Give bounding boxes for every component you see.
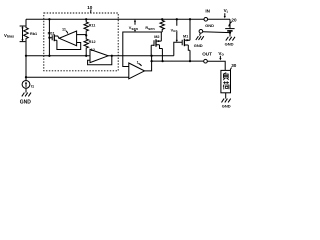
ground below load <box>222 99 231 109</box>
svg-text:M1: M1 <box>183 35 188 39</box>
transistor M11 <box>48 32 81 50</box>
wire load to ground <box>225 93 227 99</box>
op-amp 1 <box>129 60 145 79</box>
svg-text:R11: R11 <box>89 24 96 28</box>
transistor M1 <box>174 19 190 61</box>
svg-text:Vbias: Vbias <box>4 33 14 39</box>
svg-text:IN: IN <box>205 8 210 13</box>
svg-text:Vsen: Vsen <box>129 26 139 31</box>
wire op-amp 1 output to gate line <box>145 56 152 71</box>
resistor Rb1 <box>24 19 37 56</box>
dashed block 10 boundary <box>44 13 118 71</box>
ground below battery <box>225 37 235 47</box>
voltage arrow Vi <box>224 8 228 18</box>
voltage arrow Vbias <box>4 26 25 42</box>
svg-text:I1: I1 <box>31 84 34 88</box>
terminal IN <box>204 8 211 21</box>
load box 30 <box>221 63 237 93</box>
svg-text:1: 1 <box>137 60 139 64</box>
svg-text:Rsen: Rsen <box>145 26 155 31</box>
svg-text:GND: GND <box>222 103 231 108</box>
wire bias rail <box>26 55 90 57</box>
resistor R12 <box>84 35 96 55</box>
svg-text:M2: M2 <box>154 35 159 39</box>
svg-text:GND: GND <box>205 23 214 28</box>
label 10 with leader <box>87 5 93 13</box>
resistor Rsen <box>145 19 164 32</box>
svg-text:OUT: OUT <box>202 51 212 56</box>
terminal GND with ground <box>194 23 230 48</box>
node dots on top rail <box>48 18 191 20</box>
wire gate line from op-amp 12 output <box>108 55 174 57</box>
node bias <box>25 55 27 57</box>
wire bias to opamp1 <box>26 76 129 78</box>
current source I1 <box>22 56 34 93</box>
terminal OUT <box>202 51 212 63</box>
svg-text:Vi: Vi <box>224 8 228 14</box>
svg-text:30: 30 <box>231 63 237 68</box>
resistor R11 <box>84 19 95 35</box>
transistor M2 <box>151 32 162 61</box>
svg-text:11: 11 <box>62 27 66 31</box>
svg-text:20: 20 <box>231 17 237 22</box>
svg-text:GND: GND <box>194 43 203 48</box>
voltage arrow Vgs <box>171 19 178 42</box>
wire top rail <box>26 18 230 20</box>
op-amp 12 <box>90 48 108 63</box>
voltage arrow Vo <box>218 51 224 60</box>
wire M11 branch vertical <box>48 19 50 56</box>
wire output rail <box>152 61 226 70</box>
node R11 R12 <box>85 34 87 36</box>
wire op-amp 12 feedback <box>88 56 112 65</box>
svg-text:Rb1: Rb1 <box>30 32 37 36</box>
svg-text:10: 10 <box>87 5 93 10</box>
voltage label Vsen with arrows <box>129 19 139 32</box>
op-amp 11 (points left) <box>59 27 86 45</box>
svg-text:R12: R12 <box>89 40 96 44</box>
svg-text:Vo: Vo <box>218 51 224 57</box>
ground below I1 <box>20 93 32 106</box>
wire sense node <box>123 32 162 67</box>
svg-text:GND: GND <box>20 100 32 106</box>
battery 20 <box>225 17 237 36</box>
svg-text:GND: GND <box>225 41 234 46</box>
